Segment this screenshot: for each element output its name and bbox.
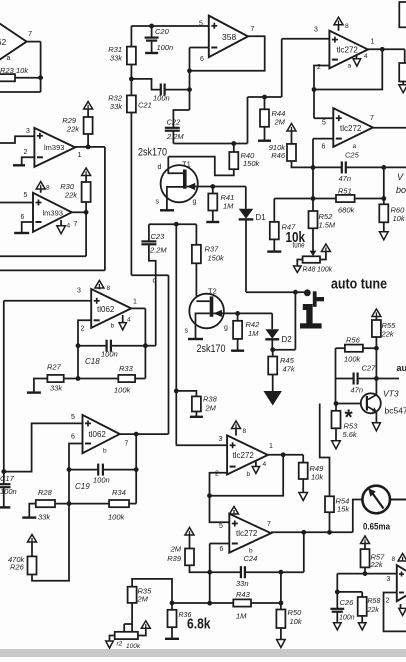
svg-text:6: 6: [200, 56, 204, 63]
svg-text:1: 1: [269, 443, 273, 450]
svg-text:lm393: lm393: [44, 143, 64, 152]
svg-text:22k: 22k: [64, 191, 78, 200]
svg-text:150k: 150k: [208, 254, 226, 263]
svg-text:4: 4: [127, 317, 131, 324]
svg-text:tlc272: tlc272: [340, 124, 362, 133]
svg-text:a: a: [348, 63, 352, 70]
svg-text:6: 6: [322, 144, 326, 151]
svg-text:D2: D2: [282, 335, 293, 344]
svg-text:5: 5: [219, 523, 223, 530]
svg-text:2.2M: 2.2M: [149, 246, 167, 255]
svg-text:tl062: tl062: [89, 430, 107, 439]
svg-text:7: 7: [74, 221, 78, 228]
svg-text:VT3: VT3: [383, 389, 399, 399]
svg-text:1.5M: 1.5M: [319, 221, 336, 230]
svg-text:2M: 2M: [205, 404, 217, 413]
svg-text:100n: 100n: [101, 350, 118, 359]
svg-text:10k: 10k: [290, 617, 303, 626]
svg-text:22k: 22k: [367, 607, 380, 614]
svg-text:V: V: [397, 172, 404, 182]
svg-text:3: 3: [219, 436, 223, 443]
svg-text:C17: C17: [0, 474, 15, 483]
svg-text:4: 4: [263, 461, 267, 468]
svg-text:tlc272: tlc272: [236, 529, 258, 538]
svg-text:s: s: [185, 328, 189, 335]
svg-text:g: g: [193, 199, 197, 206]
svg-text:C23: C23: [151, 232, 166, 241]
svg-text:150k: 150k: [243, 159, 261, 168]
svg-text:au: au: [397, 363, 406, 373]
svg-text:100k: 100k: [317, 267, 333, 274]
svg-text:a: a: [7, 55, 11, 62]
svg-text:R58: R58: [368, 598, 381, 605]
svg-text:100k: 100k: [108, 513, 126, 522]
svg-text:C26: C26: [340, 598, 355, 607]
svg-text:33k: 33k: [50, 384, 63, 393]
svg-text:lm393: lm393: [43, 209, 63, 218]
svg-text:C27: C27: [362, 364, 377, 373]
svg-text:b: b: [103, 448, 107, 455]
svg-text:7: 7: [251, 26, 255, 33]
svg-text:10k: 10k: [393, 214, 406, 223]
svg-text:6: 6: [71, 434, 75, 441]
svg-text:100k: 100k: [114, 386, 132, 395]
svg-text:5.6k: 5.6k: [343, 430, 358, 439]
svg-text:bo: bo: [396, 185, 406, 195]
svg-text:47n: 47n: [351, 386, 364, 395]
svg-text:C24: C24: [244, 554, 258, 563]
svg-text:062: 062: [0, 37, 6, 47]
svg-text:tlc272: tlc272: [233, 451, 255, 460]
svg-text:C21: C21: [138, 101, 152, 110]
svg-text:2sk170: 2sk170: [138, 147, 167, 159]
svg-text:R48: R48: [303, 267, 316, 274]
svg-text:100n: 100n: [339, 615, 355, 622]
svg-text:1: 1: [371, 39, 375, 46]
svg-text:R39: R39: [167, 554, 182, 563]
svg-text:8: 8: [345, 23, 349, 30]
svg-text:2: 2: [386, 598, 390, 605]
svg-text:7: 7: [267, 521, 271, 528]
svg-text:100n: 100n: [93, 476, 110, 485]
svg-text:C18: C18: [85, 357, 100, 366]
svg-text:R26: R26: [10, 563, 25, 572]
svg-text:680k: 680k: [338, 206, 356, 215]
svg-text:358: 358: [222, 32, 236, 42]
svg-text:r2: r2: [117, 641, 123, 648]
svg-text:R38: R38: [203, 395, 218, 404]
svg-text:0.65ma: 0.65ma: [363, 522, 391, 533]
svg-text:T1: T1: [182, 160, 191, 169]
svg-text:R56: R56: [346, 336, 361, 345]
svg-text:D1: D1: [256, 213, 267, 222]
svg-text:4: 4: [67, 223, 71, 230]
svg-text:2: 2: [81, 326, 85, 333]
svg-text:1: 1: [133, 299, 137, 306]
svg-text:d: d: [153, 278, 157, 285]
svg-text:5: 5: [71, 414, 75, 421]
svg-text:auto tune: auto tune: [331, 276, 387, 293]
svg-text:7: 7: [370, 115, 374, 122]
svg-text:T2: T2: [208, 287, 217, 296]
svg-text:10k: 10k: [311, 473, 324, 482]
svg-text:2M: 2M: [137, 595, 149, 604]
svg-text:3: 3: [26, 128, 30, 135]
svg-text:1M: 1M: [223, 202, 234, 211]
svg-text:6.8k: 6.8k: [187, 616, 211, 633]
svg-text:R46: R46: [271, 151, 286, 160]
svg-text:22k: 22k: [381, 330, 395, 339]
svg-text:8: 8: [243, 428, 247, 435]
svg-text:C22: C22: [167, 118, 182, 127]
svg-text:R28: R28: [38, 488, 53, 497]
svg-text:8: 8: [46, 185, 50, 192]
svg-text:1: 1: [78, 152, 82, 159]
svg-text:bc547: bc547: [385, 406, 406, 416]
svg-text:R43: R43: [236, 590, 251, 599]
svg-text:b: b: [111, 323, 115, 330]
svg-text:33n: 33n: [236, 579, 249, 588]
svg-text:R34: R34: [112, 488, 126, 497]
svg-text:4: 4: [364, 53, 368, 60]
svg-text:C25: C25: [345, 151, 360, 160]
svg-text:2M: 2M: [170, 545, 182, 554]
svg-text:8: 8: [107, 285, 111, 292]
svg-text:R23: R23: [0, 66, 15, 75]
svg-text:6: 6: [220, 546, 224, 553]
svg-text:tl062: tl062: [97, 305, 115, 314]
svg-text:C20: C20: [155, 27, 170, 36]
svg-text:33k: 33k: [110, 102, 123, 111]
svg-text:5: 5: [199, 21, 203, 28]
svg-text:22k: 22k: [370, 560, 384, 569]
svg-text:8: 8: [392, 556, 396, 563]
svg-text:d: d: [158, 164, 162, 171]
svg-text:47n: 47n: [339, 174, 352, 183]
svg-text:a: a: [353, 143, 357, 150]
svg-text:2sk170: 2sk170: [197, 343, 226, 355]
svg-text:s: s: [156, 199, 160, 206]
svg-text:100k: 100k: [344, 355, 362, 364]
svg-text:100n: 100n: [157, 43, 174, 52]
svg-text:100n: 100n: [0, 487, 17, 496]
svg-text:tlc272: tlc272: [337, 46, 359, 55]
svg-text:2.2M: 2.2M: [166, 132, 184, 141]
svg-text:R51: R51: [338, 187, 352, 196]
svg-text:10k: 10k: [16, 66, 29, 75]
svg-text:5: 5: [24, 192, 28, 199]
svg-text:tune: tune: [293, 241, 305, 250]
svg-text:33k: 33k: [110, 54, 123, 63]
svg-text:2M: 2M: [274, 118, 286, 127]
svg-text:7: 7: [28, 29, 32, 38]
svg-text:3: 3: [77, 288, 81, 295]
svg-text:b: b: [247, 471, 251, 478]
svg-text:1M: 1M: [236, 612, 247, 621]
svg-text:3: 3: [387, 576, 391, 583]
svg-text:g: g: [224, 325, 228, 332]
svg-text:C19: C19: [75, 482, 90, 491]
svg-text:R50: R50: [288, 608, 303, 617]
svg-text:R27: R27: [47, 363, 62, 372]
svg-text:2: 2: [215, 471, 219, 478]
svg-text:3: 3: [314, 27, 318, 34]
svg-text:100n: 100n: [153, 94, 170, 103]
svg-text:47k: 47k: [283, 365, 296, 374]
svg-text:R37: R37: [205, 245, 220, 254]
svg-text:5: 5: [322, 120, 326, 127]
svg-text:7: 7: [125, 441, 129, 448]
svg-text:R42: R42: [246, 320, 261, 329]
svg-text:100k: 100k: [126, 643, 141, 650]
svg-text:2: 2: [24, 149, 28, 156]
svg-text:1M: 1M: [248, 329, 259, 338]
svg-text:33k: 33k: [38, 513, 51, 522]
svg-text:6: 6: [21, 214, 25, 221]
svg-text:22k: 22k: [66, 125, 80, 134]
svg-text:R33: R33: [119, 364, 134, 373]
svg-text:15k: 15k: [337, 505, 350, 514]
